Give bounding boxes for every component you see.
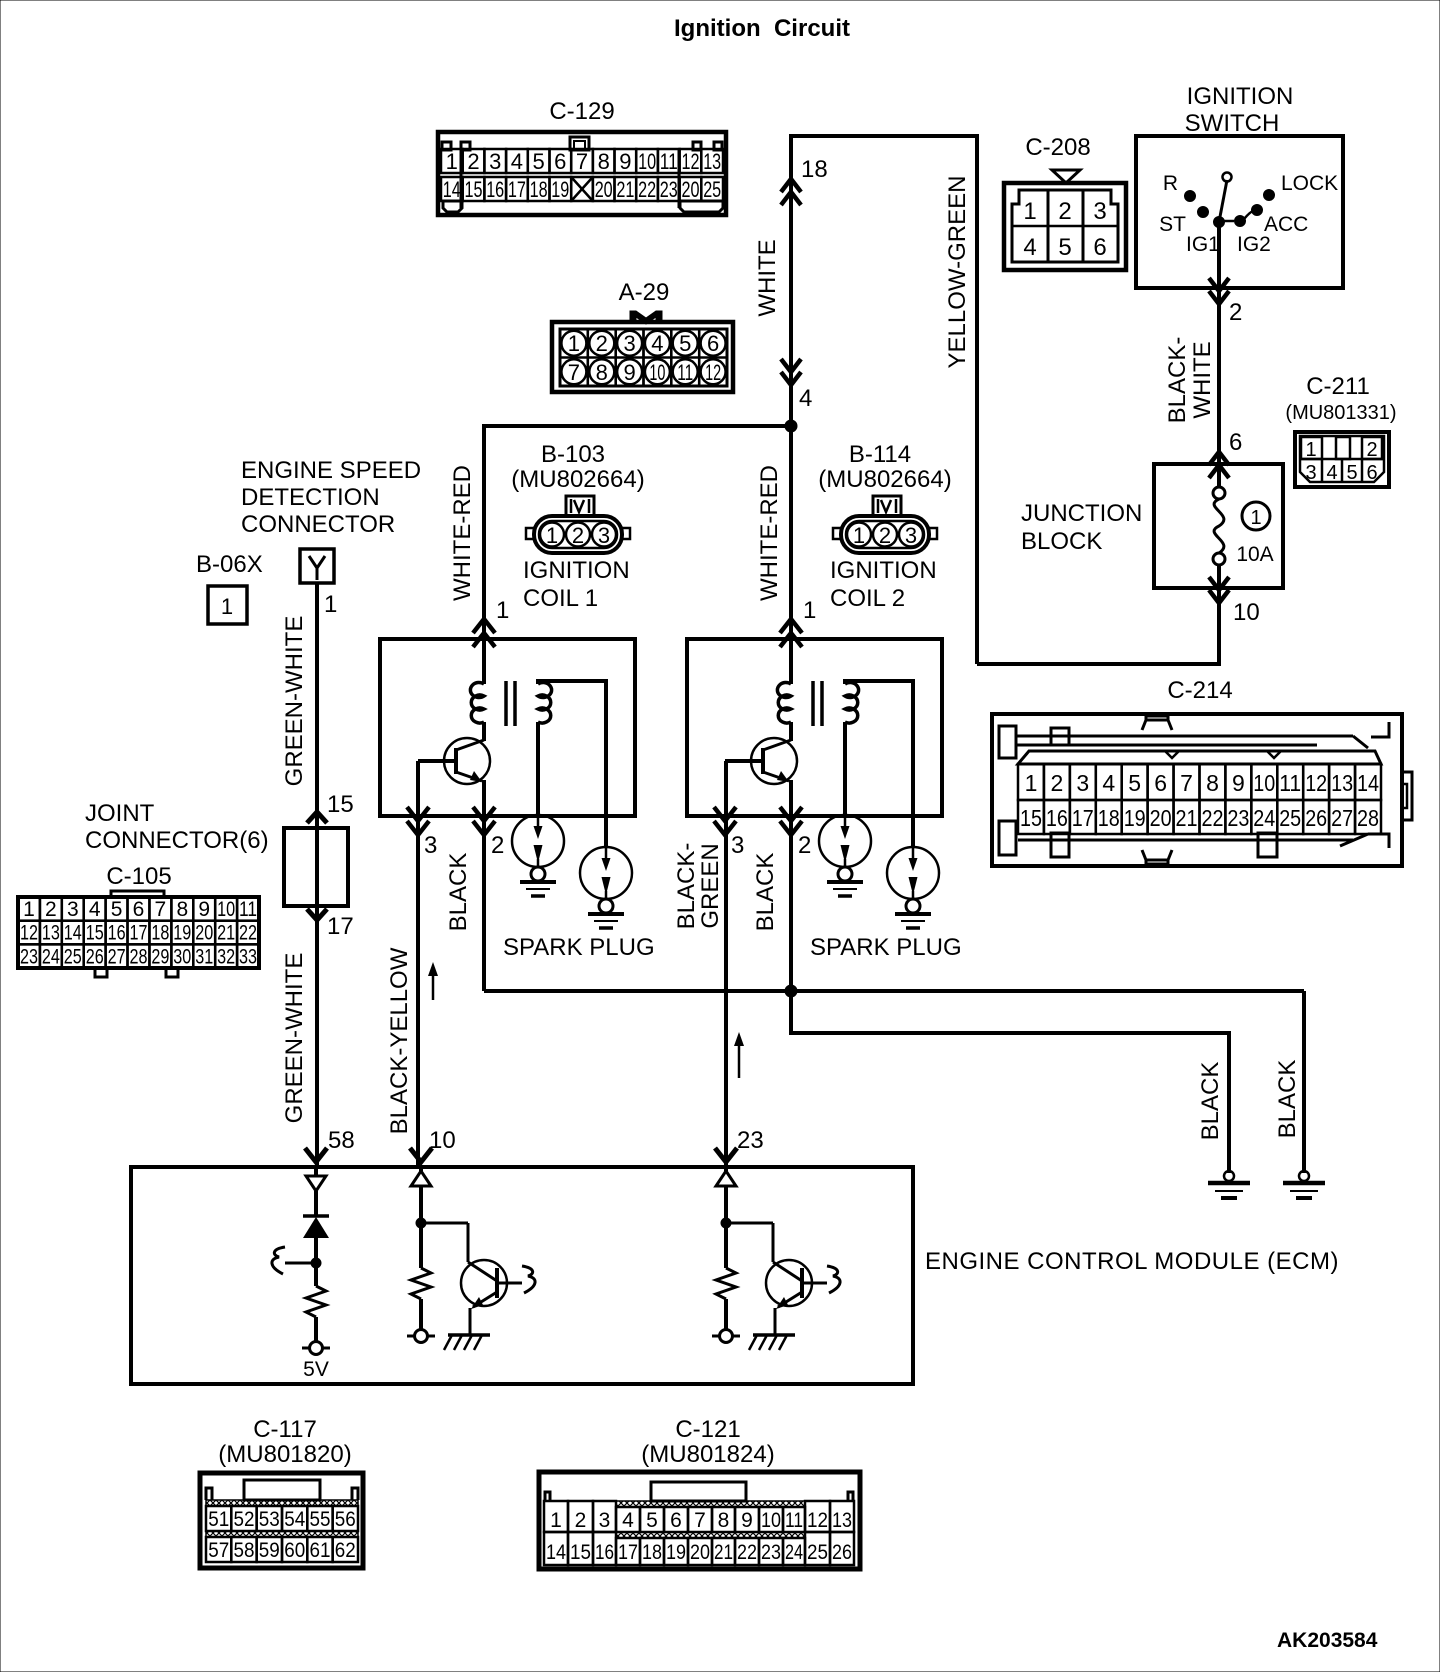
svg-text:BLACK-: BLACK- <box>673 843 700 930</box>
svg-text:16: 16 <box>486 177 504 202</box>
svg-text:2: 2 <box>1229 299 1242 326</box>
svg-text:11: 11 <box>1279 770 1301 796</box>
svg-text:23: 23 <box>737 1127 764 1154</box>
svg-text:4: 4 <box>89 898 101 921</box>
svg-text:51: 51 <box>208 1508 229 1531</box>
svg-text:27: 27 <box>1331 805 1353 831</box>
svg-text:24: 24 <box>785 1541 803 1564</box>
svg-text:6: 6 <box>1154 770 1167 796</box>
svg-text:6: 6 <box>1093 234 1106 261</box>
svg-text:60: 60 <box>284 1539 305 1562</box>
svg-text:(MU801824): (MU801824) <box>641 1441 774 1468</box>
svg-text:1: 1 <box>23 898 35 921</box>
svg-text:2: 2 <box>45 898 57 921</box>
svg-text:21: 21 <box>714 1541 733 1564</box>
svg-text:21: 21 <box>616 177 634 202</box>
svg-text:58: 58 <box>234 1539 255 1562</box>
svg-text:8: 8 <box>718 1509 730 1532</box>
svg-text:2: 2 <box>879 523 891 548</box>
svg-text:3: 3 <box>731 832 744 859</box>
svg-text:13: 13 <box>832 1509 852 1532</box>
svg-text:C-105: C-105 <box>106 863 171 890</box>
svg-text:6: 6 <box>1229 429 1242 456</box>
svg-text:18: 18 <box>530 177 548 202</box>
svg-text:17: 17 <box>130 922 148 945</box>
svg-text:C-121: C-121 <box>675 1416 740 1443</box>
svg-text:5: 5 <box>679 331 691 356</box>
svg-text:GREEN-WHITE: GREEN-WHITE <box>281 953 308 1124</box>
svg-text:33: 33 <box>239 945 257 968</box>
svg-text:55: 55 <box>310 1508 331 1531</box>
svg-text:8: 8 <box>598 149 610 174</box>
svg-text:56: 56 <box>335 1508 356 1531</box>
svg-text:3: 3 <box>1305 462 1316 484</box>
svg-text:12: 12 <box>20 922 38 945</box>
svg-text:JUNCTION: JUNCTION <box>1021 500 1142 527</box>
svg-text:IGNITION: IGNITION <box>523 557 630 584</box>
svg-text:5V: 5V <box>303 1358 329 1381</box>
svg-text:IGNITION: IGNITION <box>1187 83 1294 110</box>
svg-text:1: 1 <box>568 331 580 356</box>
svg-text:BLACK: BLACK <box>445 853 472 932</box>
svg-text:27: 27 <box>108 945 126 968</box>
svg-text:30: 30 <box>173 945 191 968</box>
svg-text:16: 16 <box>1046 805 1068 831</box>
svg-text:25: 25 <box>807 1541 828 1564</box>
svg-text:29: 29 <box>151 945 169 968</box>
svg-text:1: 1 <box>1023 198 1036 225</box>
svg-text:62: 62 <box>335 1539 356 1562</box>
svg-text:IG1: IG1 <box>1186 233 1220 256</box>
svg-text:10A: 10A <box>1236 543 1273 566</box>
svg-text:AK203584: AK203584 <box>1277 1629 1378 1652</box>
svg-text:13: 13 <box>703 149 721 174</box>
svg-text:5: 5 <box>1058 234 1071 261</box>
svg-text:32: 32 <box>217 945 235 968</box>
svg-text:B-114: B-114 <box>849 441 911 468</box>
svg-text:BLACK-: BLACK- <box>1164 337 1191 424</box>
svg-text:2: 2 <box>467 149 479 174</box>
svg-text:4: 4 <box>1023 234 1036 261</box>
svg-text:WHITE-RED: WHITE-RED <box>756 465 783 601</box>
svg-text:54: 54 <box>284 1508 305 1531</box>
svg-text:BLOCK: BLOCK <box>1021 528 1102 555</box>
svg-text:6: 6 <box>707 331 719 356</box>
svg-text:7: 7 <box>694 1509 706 1532</box>
svg-text:10: 10 <box>1233 599 1260 626</box>
svg-text:1: 1 <box>1250 507 1261 529</box>
svg-text:17: 17 <box>327 913 354 940</box>
svg-text:1: 1 <box>221 594 233 619</box>
svg-text:6: 6 <box>1366 462 1377 484</box>
svg-text:DETECTION: DETECTION <box>241 484 380 511</box>
svg-text:20: 20 <box>682 177 700 202</box>
svg-text:1: 1 <box>853 523 865 548</box>
svg-text:B-06X: B-06X <box>196 551 263 578</box>
svg-text:16: 16 <box>595 1541 614 1564</box>
svg-text:22: 22 <box>638 177 656 202</box>
svg-text:18: 18 <box>642 1541 662 1564</box>
svg-text:WHITE: WHITE <box>1189 341 1216 418</box>
svg-text:3: 3 <box>1093 198 1106 225</box>
svg-text:13: 13 <box>1331 770 1353 796</box>
svg-text:BLACK: BLACK <box>1197 1062 1224 1141</box>
svg-text:5: 5 <box>111 898 123 921</box>
svg-text:20: 20 <box>595 177 613 202</box>
svg-text:6: 6 <box>670 1509 682 1532</box>
svg-text:21: 21 <box>217 922 235 945</box>
svg-text:23: 23 <box>761 1541 781 1564</box>
svg-text:3: 3 <box>67 898 79 921</box>
svg-text:9: 9 <box>619 149 631 174</box>
svg-text:ENGINE SPEED: ENGINE SPEED <box>241 457 421 484</box>
svg-text:4: 4 <box>622 1509 634 1532</box>
svg-text:C-117: C-117 <box>253 1416 317 1443</box>
svg-text:Ignition Circuit: Ignition Circuit <box>674 15 850 42</box>
svg-text:28: 28 <box>130 945 148 968</box>
svg-text:23: 23 <box>20 945 38 968</box>
svg-text:8: 8 <box>596 360 608 385</box>
svg-text:1: 1 <box>324 591 337 618</box>
svg-text:59: 59 <box>259 1539 280 1562</box>
svg-text:B-103: B-103 <box>541 441 605 468</box>
svg-text:CONNECTOR: CONNECTOR <box>241 511 395 538</box>
svg-text:9: 9 <box>1232 770 1245 796</box>
svg-text:6: 6 <box>554 149 566 174</box>
svg-text:15: 15 <box>1020 805 1042 831</box>
svg-text:24: 24 <box>1253 805 1275 831</box>
svg-text:R: R <box>1163 172 1178 195</box>
svg-text:10: 10 <box>217 898 235 921</box>
svg-text:14: 14 <box>1357 770 1379 796</box>
svg-text:61: 61 <box>310 1539 331 1562</box>
svg-text:10: 10 <box>638 149 656 174</box>
svg-text:15: 15 <box>570 1541 591 1564</box>
svg-text:1: 1 <box>546 523 558 548</box>
svg-text:25: 25 <box>1279 805 1301 831</box>
svg-text:ST: ST <box>1159 213 1186 236</box>
svg-text:3: 3 <box>424 832 437 859</box>
svg-text:ENGINE CONTROL MODULE (ECM): ENGINE CONTROL MODULE (ECM) <box>925 1248 1339 1275</box>
svg-text:17: 17 <box>508 177 526 202</box>
svg-text:7: 7 <box>1180 770 1193 796</box>
svg-text:11: 11 <box>785 1509 803 1532</box>
svg-text:18: 18 <box>801 156 828 183</box>
svg-text:19: 19 <box>173 922 191 945</box>
svg-text:31: 31 <box>195 945 213 968</box>
svg-text:YELLOW-GREEN: YELLOW-GREEN <box>944 176 971 369</box>
svg-text:12: 12 <box>705 360 721 385</box>
svg-text:58: 58 <box>328 1127 355 1154</box>
svg-text:7: 7 <box>155 898 167 921</box>
svg-text:15: 15 <box>327 791 354 818</box>
svg-text:SPARK PLUG: SPARK PLUG <box>503 934 655 961</box>
svg-text:23: 23 <box>1227 805 1249 831</box>
svg-text:20: 20 <box>1150 805 1172 831</box>
svg-text:3: 3 <box>905 523 917 548</box>
svg-text:22: 22 <box>1202 805 1224 831</box>
svg-text:4: 4 <box>1326 462 1337 484</box>
svg-text:17: 17 <box>1072 805 1094 831</box>
svg-text:BLACK: BLACK <box>752 853 779 932</box>
svg-text:25: 25 <box>64 945 82 968</box>
svg-text:53: 53 <box>259 1508 280 1531</box>
svg-text:26: 26 <box>1305 805 1327 831</box>
svg-text:11: 11 <box>239 898 257 921</box>
svg-text:14: 14 <box>546 1541 566 1564</box>
svg-text:CONNECTOR(6): CONNECTOR(6) <box>85 827 269 854</box>
svg-text:4: 4 <box>1102 770 1115 796</box>
svg-text:COIL 1: COIL 1 <box>523 585 598 612</box>
svg-text:22: 22 <box>239 922 257 945</box>
svg-text:3: 3 <box>1076 770 1089 796</box>
svg-text:22: 22 <box>737 1541 757 1564</box>
svg-text:18: 18 <box>1098 805 1120 831</box>
svg-text:8: 8 <box>176 898 188 921</box>
svg-text:C-214: C-214 <box>1167 677 1232 704</box>
svg-text:WHITE-RED: WHITE-RED <box>449 465 476 601</box>
svg-text:24: 24 <box>42 945 60 968</box>
svg-text:20: 20 <box>690 1541 710 1564</box>
svg-text:2: 2 <box>575 1509 587 1532</box>
svg-text:COIL 2: COIL 2 <box>830 585 905 612</box>
svg-text:C-211: C-211 <box>1306 373 1370 400</box>
svg-text:(MU801820): (MU801820) <box>218 1441 351 1468</box>
svg-text:28: 28 <box>1357 805 1379 831</box>
svg-text:2: 2 <box>1051 770 1064 796</box>
svg-text:19: 19 <box>666 1541 686 1564</box>
svg-text:11: 11 <box>660 149 678 174</box>
svg-text:3: 3 <box>489 149 501 174</box>
svg-text:4: 4 <box>511 149 523 174</box>
svg-text:IGNITION: IGNITION <box>830 557 937 584</box>
svg-text:12: 12 <box>682 149 700 174</box>
svg-text:GREEN: GREEN <box>697 843 724 928</box>
svg-text:2: 2 <box>798 832 811 859</box>
svg-text:26: 26 <box>86 945 104 968</box>
svg-text:19: 19 <box>1124 805 1146 831</box>
svg-text:5: 5 <box>1346 462 1357 484</box>
svg-text:1: 1 <box>496 597 509 624</box>
svg-text:LOCK: LOCK <box>1281 172 1338 195</box>
svg-text:SPARK PLUG: SPARK PLUG <box>810 934 962 961</box>
svg-text:1: 1 <box>1305 439 1316 461</box>
svg-text:15: 15 <box>465 177 483 202</box>
svg-text:1: 1 <box>1025 770 1038 796</box>
svg-text:BLACK-YELLOW: BLACK-YELLOW <box>386 947 413 1134</box>
svg-text:3: 3 <box>623 331 635 356</box>
svg-text:52: 52 <box>234 1508 255 1531</box>
svg-text:20: 20 <box>195 922 213 945</box>
svg-text:IG2: IG2 <box>1237 233 1271 256</box>
svg-text:A-29: A-29 <box>619 279 670 306</box>
svg-text:5: 5 <box>1128 770 1141 796</box>
svg-text:7: 7 <box>576 149 588 174</box>
svg-text:9: 9 <box>198 898 210 921</box>
svg-text:2: 2 <box>1366 439 1377 461</box>
svg-text:1: 1 <box>446 149 458 174</box>
svg-text:(MU802664): (MU802664) <box>818 466 951 493</box>
svg-text:21: 21 <box>1176 805 1198 831</box>
svg-text:5: 5 <box>646 1509 658 1532</box>
svg-text:2: 2 <box>596 331 608 356</box>
svg-text:C-129: C-129 <box>549 98 614 125</box>
svg-text:5: 5 <box>532 149 544 174</box>
svg-text:2: 2 <box>491 832 504 859</box>
svg-text:13: 13 <box>42 922 60 945</box>
svg-text:12: 12 <box>807 1509 828 1532</box>
svg-text:11: 11 <box>677 360 693 385</box>
svg-text:3: 3 <box>598 523 610 548</box>
svg-text:16: 16 <box>108 922 126 945</box>
svg-text:8: 8 <box>1206 770 1219 796</box>
svg-text:18: 18 <box>151 922 169 945</box>
svg-text:9: 9 <box>623 360 635 385</box>
svg-text:6: 6 <box>133 898 145 921</box>
svg-text:25: 25 <box>703 177 721 202</box>
svg-text:12: 12 <box>1305 770 1327 796</box>
svg-text:9: 9 <box>741 1509 753 1532</box>
svg-text:10: 10 <box>761 1509 781 1532</box>
svg-text:SWITCH: SWITCH <box>1185 110 1280 137</box>
svg-text:26: 26 <box>832 1541 852 1564</box>
svg-text:15: 15 <box>86 922 104 945</box>
svg-text:WHITE: WHITE <box>754 239 781 316</box>
svg-text:JOINT: JOINT <box>85 800 155 827</box>
svg-text:57: 57 <box>208 1539 229 1562</box>
svg-text:BLACK: BLACK <box>1274 1060 1301 1139</box>
svg-text:3: 3 <box>599 1509 611 1532</box>
svg-text:14: 14 <box>443 177 461 202</box>
svg-text:14: 14 <box>64 922 82 945</box>
svg-text:17: 17 <box>618 1541 638 1564</box>
svg-text:GREEN-WHITE: GREEN-WHITE <box>281 616 308 787</box>
svg-text:2: 2 <box>572 523 584 548</box>
svg-text:4: 4 <box>799 385 812 412</box>
svg-text:(MU801331): (MU801331) <box>1285 402 1396 424</box>
svg-text:2: 2 <box>1058 198 1071 225</box>
svg-text:1: 1 <box>550 1509 562 1532</box>
svg-text:19: 19 <box>551 177 569 202</box>
svg-text:4: 4 <box>651 331 663 356</box>
svg-text:10: 10 <box>649 360 665 385</box>
svg-text:(MU802664): (MU802664) <box>511 466 644 493</box>
svg-text:10: 10 <box>1253 770 1275 796</box>
svg-text:C-208: C-208 <box>1025 134 1090 161</box>
svg-text:23: 23 <box>660 177 678 202</box>
svg-text:7: 7 <box>568 360 580 385</box>
svg-text:1: 1 <box>803 597 816 624</box>
